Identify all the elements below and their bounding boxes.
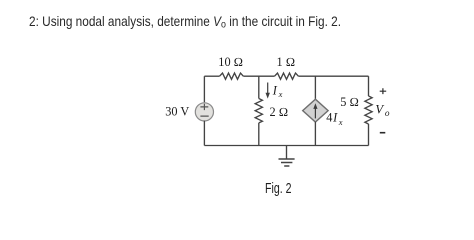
dependent current source U1 (diamond) [303, 99, 328, 122]
voltage source V1 value label 30 V [165, 105, 189, 119]
resistor R1 value label 10 ohm [218, 55, 243, 69]
resistor R4 value label 5 ohm [340, 95, 359, 109]
resistor R3 2 ohm zigzag (vertical) [255, 99, 262, 123]
output voltage plus sign [380, 88, 387, 94]
output voltage minus sign [380, 132, 386, 134]
svg-text:V: V [375, 102, 384, 116]
wire top-left segment (node A to R1) [204, 75, 219, 77]
resistor R2 value label 1 ohm [277, 55, 296, 69]
resistor R3 value label 2 ohm [270, 105, 289, 119]
figure caption Fig. 2 [265, 182, 291, 197]
wire top-right segment (R2 to node C) [298, 75, 368, 77]
svg-text:I: I [332, 111, 338, 125]
wire middle vertical upper (node B down to R3) [258, 76, 260, 98]
wire right vertical lower (R4 to bottom rail) [368, 124, 370, 146]
svg-text:10 Ω: 10 Ω [218, 55, 243, 69]
svg-text:2 Ω: 2 Ω [270, 105, 289, 119]
svg-text:x: x [278, 89, 283, 99]
current Ix label [272, 84, 283, 100]
wire left vertical upper (to V1 plus terminal) [203, 76, 205, 102]
title text [29, 14, 341, 32]
wire right vertical upper (node C to R4) [368, 76, 370, 96]
wire between R1 and R2 (node B) [243, 75, 274, 77]
dependent source gain label 4Ix [326, 111, 343, 127]
svg-text:30 V: 30 V [165, 105, 189, 119]
wire bottom rail [204, 145, 368, 147]
svg-text:x: x [338, 117, 343, 127]
voltage source V1 30V circle [195, 103, 213, 121]
resistor R1 10 ohm zigzag [220, 73, 244, 79]
resistor R4 5 ohm zigzag (vertical) [365, 96, 372, 124]
ground symbol [279, 146, 295, 167]
current Ix arrow (downward) [266, 83, 270, 99]
wire diamond branch upper (node C down to U1) [314, 76, 316, 99]
wire diamond branch lower (U1 to bottom rail) [314, 122, 316, 146]
output voltage label Vo [375, 102, 390, 119]
svg-text:5 Ω: 5 Ω [340, 95, 359, 109]
resistor R2 1 ohm zigzag [275, 73, 299, 79]
svg-text:I: I [272, 84, 278, 98]
svg-text:o: o [385, 109, 390, 119]
wire middle vertical lower (R3 to bottom rail) [258, 123, 260, 146]
svg-text:1 Ω: 1 Ω [277, 55, 296, 69]
svg-text:4: 4 [326, 111, 332, 125]
wire left vertical lower (V1 minus to bottom rail) [203, 121, 205, 146]
